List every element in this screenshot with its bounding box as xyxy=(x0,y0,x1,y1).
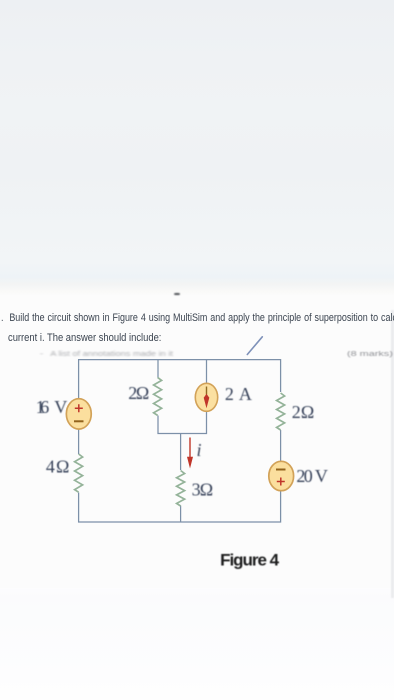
svg-text:2: 2 xyxy=(225,384,234,404)
svg-text:Ω: Ω xyxy=(56,457,69,477)
svg-text:Ω: Ω xyxy=(301,402,314,422)
resistor 3-ohm (zigzag) xyxy=(177,471,185,507)
resistor 2-ohm top (zigzag) xyxy=(154,377,162,415)
svg-text:V: V xyxy=(315,466,328,486)
wire: middle branch lower xyxy=(180,506,182,523)
wire: middle branch upper xyxy=(180,434,182,471)
resistor 4-ohm (zigzag) xyxy=(75,454,83,492)
current arrow i xyxy=(189,438,191,459)
page right edge strip xyxy=(391,310,394,598)
wire: top horizontal xyxy=(79,360,281,398)
page dash mark xyxy=(174,293,181,296)
blue pen slash xyxy=(247,337,262,355)
wire: right between 2-ohm and 20V xyxy=(280,430,282,461)
voltage source 20V xyxy=(269,461,294,490)
svg-text:Figure 4: Figure 4 xyxy=(220,550,280,569)
problem text line 2 xyxy=(8,333,161,344)
background bottom xyxy=(0,588,394,700)
wire: left below 4-ohm to bottom and bottom horizontal to right xyxy=(79,490,281,522)
wire: left lower segment xyxy=(78,429,80,455)
svg-text:2: 2 xyxy=(292,402,301,422)
svg-text:Ω: Ω xyxy=(136,383,149,403)
svg-text:16: 16 xyxy=(36,397,50,417)
background top gradient xyxy=(0,0,394,296)
voltage source 16V xyxy=(66,399,91,429)
svg-text:i: i xyxy=(197,440,202,460)
svg-text:A: A xyxy=(239,384,252,404)
resistor 2-ohm right (zigzag) xyxy=(277,393,285,430)
faint blurred list line left xyxy=(40,350,173,357)
wire: 2-ohm top branch upper stub xyxy=(157,360,159,378)
current source 2A xyxy=(195,383,217,411)
wire: 2-ohm top branch lower stub + inner node wire + 2A lower stub xyxy=(158,410,207,434)
faint blurred marks right xyxy=(347,351,393,358)
problem text line 1 xyxy=(1,313,394,324)
white document page xyxy=(0,296,394,588)
svg-text:Ω: Ω xyxy=(200,479,213,499)
wire: 2A upper stub xyxy=(206,360,208,385)
svg-text:20: 20 xyxy=(296,466,312,486)
svg-text:4: 4 xyxy=(46,457,55,477)
svg-text:V: V xyxy=(54,397,67,417)
